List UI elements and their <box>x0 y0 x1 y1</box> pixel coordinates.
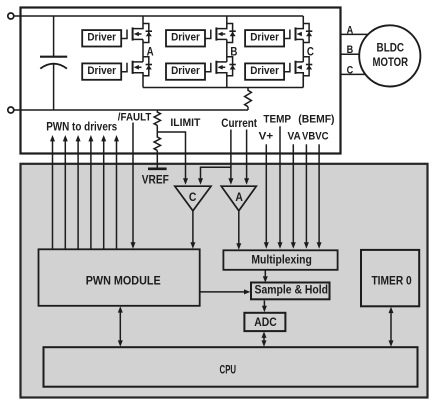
svg-text:V+: V+ <box>259 131 274 143</box>
svg-text:B: B <box>230 46 237 58</box>
svg-text:/FAULT: /FAULT <box>118 111 152 123</box>
driver U1 (phase A high-side) <box>82 30 121 46</box>
wire: VC to multiplexing (arrow down) <box>318 144 320 242</box>
resistor R2 (divider lower) <box>154 132 160 169</box>
wire: VB to multiplexing (arrow down) <box>305 144 307 242</box>
svg-text:VC: VC <box>315 131 328 143</box>
transistor Q3 (phase B high-side MOSFET with body diode) <box>205 16 236 43</box>
svg-text:TIMER 0: TIMER 0 <box>371 273 412 287</box>
svg-text:PWN MODULE: PWN MODULE <box>86 273 161 287</box>
driver U6 (phase C low-side) <box>245 63 284 79</box>
svg-text:VREF: VREF <box>142 175 169 187</box>
svg-text:C: C <box>189 192 197 204</box>
svg-text:ILIMIT: ILIMIT <box>170 117 200 129</box>
svg-text:Driver: Driver <box>87 65 116 77</box>
svg-text:(BEMF): (BEMF) <box>298 114 335 126</box>
driver U4 (phase B low-side) <box>166 63 205 79</box>
svg-text:A: A <box>347 24 354 36</box>
terminal T1 (DC+ input) <box>8 13 14 19</box>
svg-text:C: C <box>307 46 314 58</box>
node C label <box>307 46 314 58</box>
wire: PWN MODULE to CPU (bidirectional arrow) <box>119 312 121 341</box>
svg-text:Driver: Driver <box>250 32 279 44</box>
wire: V+ to multiplexing (arrow down) <box>265 144 267 242</box>
wire: -DC bottom rail <box>14 109 248 111</box>
svg-text:C: C <box>347 64 354 76</box>
op-amp C (comparator) <box>175 186 211 211</box>
svg-text:Driver: Driver <box>250 65 279 77</box>
wire: PWM drive line 1 (module to driver, arrow up) <box>52 141 54 249</box>
microcontroller enclosure (gray) <box>21 164 428 398</box>
wire: branch to comparator C right input <box>201 167 231 178</box>
wire: comparator C output to PWN MODULE (arrow down) <box>192 211 194 243</box>
transistor Q6 (phase C low-side MOSFET with body diode) <box>284 57 312 88</box>
wire: ADC to CPU (bidirectional arrow) <box>263 338 265 342</box>
svg-text:Driver: Driver <box>171 32 200 44</box>
terminal T2 (DC- input) <box>8 107 14 113</box>
wire: motor phase B <box>341 53 363 55</box>
svg-text:MOTOR: MOTOR <box>373 57 409 69</box>
motor M1 (BLDC MOTOR) <box>359 25 420 86</box>
wire: motor phase A <box>341 33 373 35</box>
inverter enclosure box <box>21 8 341 154</box>
wire: current sense to A left input and C right input <box>230 130 232 179</box>
svg-text:VA: VA <box>288 131 301 143</box>
wire: PWM drive line 2 (module to driver, arrow up) <box>64 141 66 249</box>
svg-text:Driver: Driver <box>87 32 116 44</box>
svg-text:ADC: ADC <box>254 315 277 329</box>
transistor Q2 (phase A low-side MOSFET with body diode) <box>121 57 152 88</box>
driver U5 (phase C high-side) <box>245 30 284 46</box>
wire: ILIMIT tap to comparator C left input (arrow down) <box>157 132 185 179</box>
wire: PWM drive line 3 (module to driver, arrow up) <box>77 141 79 249</box>
wire: PWM drive line 6 (module to driver, arrow up) <box>116 141 118 249</box>
transistor Q1 (phase A high-side MOSFET with body diode) <box>121 16 152 43</box>
svg-text:B: B <box>347 44 354 56</box>
node B label <box>230 46 237 58</box>
wire: phase B node (high source to low drain) <box>226 39 228 62</box>
wire: Sample & Hold to ADC (arrow down) <box>263 301 265 307</box>
wire: motor phase C <box>341 73 371 75</box>
wire: TIMER 0 to CPU (bidirectional arrow) <box>390 313 392 342</box>
op-amp A (amplifier) <box>221 186 256 211</box>
wire: +DC top rail <box>14 15 303 17</box>
wire: bridge bottom bus <box>143 76 303 88</box>
wire: Multiplexing to Sample & Hold (arrow down) <box>264 270 266 277</box>
wire: phase A node (high source to low drain) <box>142 39 144 62</box>
block Sample & Hold <box>251 283 330 300</box>
svg-text:PWN to drivers: PWN to drivers <box>46 119 117 133</box>
wire: /FAULT to PWN MODULE (arrow down) <box>132 123 134 243</box>
svg-text:BLDC: BLDC <box>377 43 405 55</box>
wire: VA to multiplexing (arrow down) <box>292 144 294 242</box>
driver U3 (phase B high-side) <box>166 30 205 46</box>
wire: amplifier A output to Multiplexing (arrow down) <box>238 211 240 244</box>
ground VREF bar <box>148 168 167 171</box>
resistor R1 (divider upper) <box>154 110 160 132</box>
capacitor C1 <box>40 16 67 110</box>
block PWN MODULE <box>39 249 200 305</box>
svg-text:TEMP: TEMP <box>263 114 291 126</box>
transistor Q4 (phase B low-side MOSFET with body diode) <box>205 57 236 88</box>
wire: TEMP to multiplexing (arrow down) <box>279 126 281 242</box>
svg-text:A: A <box>235 192 243 204</box>
block ADC <box>244 313 285 331</box>
transistor Q5 (phase C high-side MOSFET with body diode) <box>284 16 312 43</box>
block CPU <box>44 347 418 387</box>
wire: PWM drive line 4 (module to driver, arrow up) <box>90 141 92 249</box>
svg-text:VB: VB <box>302 131 315 143</box>
svg-text:Driver: Driver <box>171 65 200 77</box>
wire: current sense to amplifier A right input <box>246 130 248 179</box>
block TIMER 0 <box>361 250 419 306</box>
wire: phase C node (high source to low drain) <box>302 39 304 62</box>
driver U2 (phase A low-side) <box>82 63 121 79</box>
svg-text:Multiplexing: Multiplexing <box>251 252 312 266</box>
resistor Rsense (current sense) <box>245 88 252 111</box>
svg-text:CPU: CPU <box>220 365 237 377</box>
block Multiplexing <box>223 250 337 269</box>
wire: PWN MODULE to Sample & Hold (arrow right) <box>200 291 245 293</box>
wire: PWM drive line 5 (module to driver, arrow up) <box>103 141 105 249</box>
node A label <box>147 46 154 58</box>
svg-text:Current: Current <box>221 118 257 130</box>
svg-text:Sample & Hold: Sample & Hold <box>255 283 329 297</box>
svg-text:A: A <box>147 46 154 58</box>
